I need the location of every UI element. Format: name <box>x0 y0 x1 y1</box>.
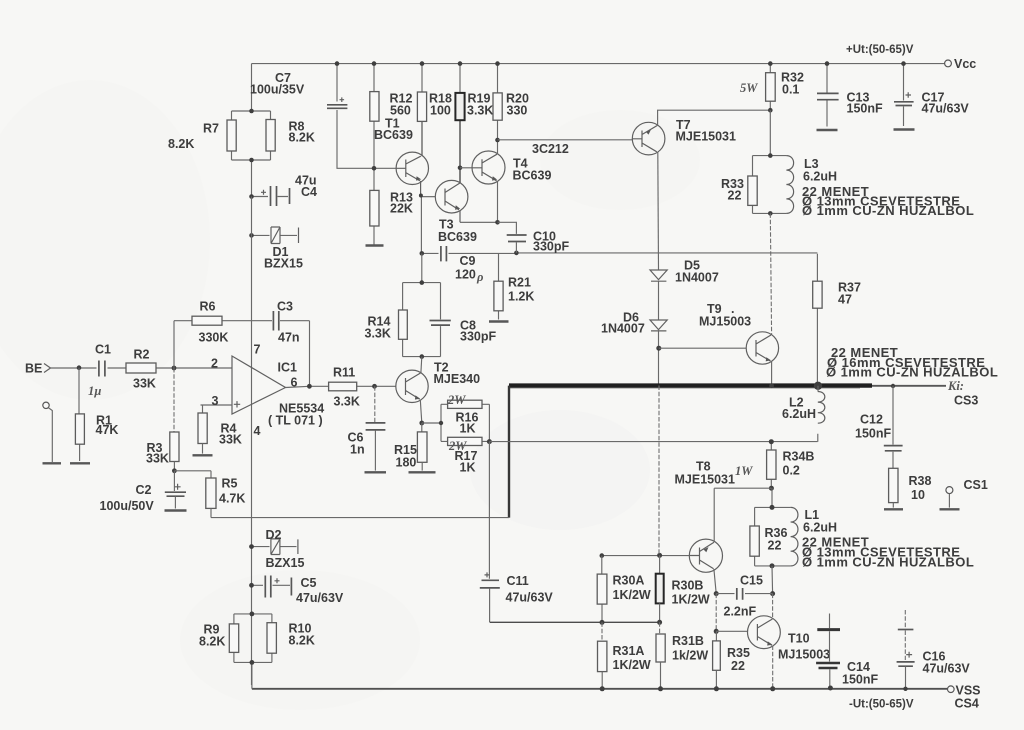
svg-text:CS4: CS4 <box>955 697 979 711</box>
svg-text:8.2K: 8.2K <box>289 131 315 145</box>
resistor R21 <box>498 253 500 319</box>
svg-text:47u/63V: 47u/63V <box>922 102 970 116</box>
node R12 top <box>372 61 377 66</box>
wire T2 collector <box>420 357 423 373</box>
svg-text:Ki:: Ki: <box>947 379 964 393</box>
node R19 top <box>458 61 463 66</box>
node R30B top <box>657 553 662 558</box>
wire T10 emitter <box>772 646 774 689</box>
op-amp IC1 NE5534 <box>201 342 325 438</box>
svg-text:33K: 33K <box>219 433 242 447</box>
svg-text:330pF: 330pF <box>533 240 569 254</box>
svg-text:C3: C3 <box>277 300 293 314</box>
capacitor C8 <box>430 321 451 326</box>
svg-text:CS3: CS3 <box>954 394 978 408</box>
wire T10 base <box>716 630 747 632</box>
node C9 left <box>420 251 425 256</box>
resistor R3 <box>173 368 175 432</box>
svg-text:150nF: 150nF <box>842 673 878 687</box>
wire base line to T7 <box>498 139 633 141</box>
capacitor C16 <box>904 610 906 629</box>
terminal input ground <box>43 402 49 408</box>
node T1 base <box>372 166 377 171</box>
svg-text:47u/63V: 47u/63V <box>923 662 971 676</box>
diode D5 1N4007 <box>650 270 667 281</box>
svg-text:C12: C12 <box>860 413 883 427</box>
svg-text:R5: R5 <box>222 477 238 491</box>
svg-text:3C212: 3C212 <box>532 142 569 156</box>
svg-text:100u/50V: 100u/50V <box>100 499 155 513</box>
node R16R17 right <box>487 439 492 444</box>
svg-text:47n: 47n <box>278 331 300 345</box>
wire R30 T8 base line <box>602 555 690 557</box>
node C13 top <box>825 61 830 66</box>
svg-text:330pF: 330pF <box>460 330 496 344</box>
wire D5 to D6 <box>658 281 660 320</box>
wire left spine middle <box>251 197 253 322</box>
node input R1 <box>77 365 82 370</box>
inductor L1 with resistor R36 <box>771 488 773 507</box>
transistor T9 MJ15003 <box>699 302 779 364</box>
svg-text:MJE15031: MJE15031 <box>675 473 736 487</box>
capacitor C17 <box>903 64 905 126</box>
node L3 bottom <box>768 211 773 216</box>
node L3 top <box>768 153 773 158</box>
svg-text:C1: C1 <box>95 343 111 357</box>
node T1 emitter joint <box>419 194 423 198</box>
terminal CS1 <box>946 487 953 494</box>
svg-text:BC639: BC639 <box>513 169 552 183</box>
node C4 <box>249 194 254 199</box>
svg-text:120: 120 <box>455 268 476 282</box>
svg-text:47K: 47K <box>96 423 119 437</box>
node R9R10 top <box>250 612 255 617</box>
node R30A top <box>600 553 605 558</box>
resistor R10 <box>267 623 276 654</box>
svg-text:MJ15003: MJ15003 <box>778 648 830 662</box>
resistor R20 <box>497 64 499 140</box>
node C5 <box>249 583 254 588</box>
node D2 <box>249 544 254 549</box>
ground below R38 <box>884 508 903 510</box>
svg-text:33K: 33K <box>133 377 156 391</box>
capacitor C15 <box>716 593 772 595</box>
resistor R31B <box>659 622 661 634</box>
node rail T9 <box>769 383 774 388</box>
resistor R31A <box>601 622 603 641</box>
node T10 base <box>714 629 719 634</box>
svg-text:7: 7 <box>254 342 261 356</box>
svg-text:4.7K: 4.7K <box>219 492 245 506</box>
transistor T10 MJ15003 <box>748 616 831 662</box>
node T2 emitter <box>419 421 424 426</box>
capacitor C2 <box>173 471 175 491</box>
svg-text:C15: C15 <box>740 574 763 588</box>
node R3 bottom <box>172 468 177 473</box>
wire T7 collector to R32 <box>658 110 771 125</box>
wire R3 to R5 <box>174 471 211 478</box>
svg-text:C2: C2 <box>136 483 152 497</box>
capacitor C4 <box>252 196 289 198</box>
resistor R4 <box>202 405 204 413</box>
transistor T8 MJE15031 <box>675 460 736 573</box>
svg-text:R2: R2 <box>134 348 150 362</box>
svg-text:R11: R11 <box>333 366 355 380</box>
svg-text:ρ: ρ <box>476 270 484 284</box>
wire T4 emitter <box>497 181 499 222</box>
svg-text:330: 330 <box>507 104 528 118</box>
resistor R1 <box>78 368 81 461</box>
capacitor C6 <box>374 386 376 422</box>
svg-text:R6: R6 <box>200 300 216 314</box>
svg-text:MJE340: MJE340 <box>434 372 481 386</box>
resistor R5 <box>206 478 216 508</box>
wire y253 to R37 <box>516 252 817 254</box>
node R9R10 bottom <box>250 660 255 665</box>
inductor L2 <box>817 386 819 442</box>
wire mid rail <box>490 621 660 623</box>
wire T9 emitter <box>771 361 773 386</box>
transistor T3 BC639 <box>435 180 497 244</box>
node T4 base <box>458 166 463 171</box>
svg-text:-Ut:(50-65)V: -Ut:(50-65)V <box>849 699 914 711</box>
node R34B bottom <box>769 486 774 491</box>
svg-text:BE: BE <box>25 362 42 376</box>
svg-text:R31B: R31B <box>672 634 704 648</box>
diode D2 BZX15 <box>252 546 297 548</box>
node R18 top <box>420 61 425 66</box>
node pin2 <box>172 366 177 371</box>
node output feedback <box>307 384 312 389</box>
wire top +Vcc rail <box>252 63 945 65</box>
resistor R11 <box>329 382 357 391</box>
wire T9 base <box>659 347 746 349</box>
svg-text:BC639: BC639 <box>438 230 477 244</box>
svg-text:MJ15003: MJ15003 <box>699 315 751 329</box>
svg-text:0.2: 0.2 <box>783 464 800 478</box>
svg-text:1n: 1n <box>350 443 365 457</box>
svg-text:MJE15031: MJE15031 <box>676 130 737 144</box>
diode D1 BZX15 <box>252 234 298 236</box>
svg-text:150nF: 150nF <box>855 427 891 441</box>
wire T4 base stub <box>460 167 472 169</box>
svg-text:150nF: 150nF <box>847 102 883 116</box>
node R20 bottom <box>495 138 500 143</box>
wire L3 to T9 collector <box>770 213 771 334</box>
svg-text:T10: T10 <box>788 632 810 646</box>
svg-text:47u/63V: 47u/63V <box>296 591 344 605</box>
svg-text:R30A: R30A <box>613 574 645 588</box>
svg-text:R35: R35 <box>727 646 750 660</box>
inductor L3 with resistor R33 <box>721 156 794 214</box>
svg-text:T8: T8 <box>696 460 711 474</box>
svg-text:1N4007: 1N4007 <box>675 271 719 285</box>
svg-text:3: 3 <box>212 394 219 408</box>
wire R6C3 feedback loop <box>174 321 310 387</box>
transistor T2 MJE340 <box>396 361 480 403</box>
svg-text:BZX15: BZX15 <box>266 556 305 570</box>
capacitor C9 <box>422 252 517 254</box>
transistor T4 BC639 <box>472 151 551 184</box>
svg-text:8.2K: 8.2K <box>168 137 194 151</box>
svg-text:47: 47 <box>838 293 852 307</box>
svg-text:C5: C5 <box>301 576 317 590</box>
resistor R37 <box>816 254 818 386</box>
svg-text:1K: 1K <box>460 422 476 436</box>
resistor R16 R17 pair <box>422 404 490 441</box>
resistor R16 <box>448 400 482 408</box>
svg-text:R34B: R34B <box>783 450 815 464</box>
wire left spine x=251.5 top <box>251 64 253 111</box>
resistor R13 <box>373 168 375 244</box>
node R32 top <box>768 61 773 66</box>
svg-text:100u/35V: 100u/35V <box>250 83 305 97</box>
wire T8 emitter node down to T10 base <box>715 594 717 632</box>
wire R32 to L3 <box>769 110 771 155</box>
svg-text:180: 180 <box>396 456 417 470</box>
node Vcc terminal <box>945 60 952 67</box>
svg-text:3.3K: 3.3K <box>334 395 360 409</box>
svg-text:Ø 1mm CU-ZN HUZALBOL: Ø 1mm CU-ZN HUZALBOL <box>802 203 974 218</box>
resistor R6 <box>192 316 222 325</box>
node mid rail R30B <box>657 620 662 625</box>
svg-text:8.2K: 8.2K <box>289 634 315 648</box>
svg-text:1K/2W: 1K/2W <box>613 588 651 602</box>
resistor R34B <box>770 442 772 489</box>
capacitor C11 <box>480 580 500 588</box>
svg-text:1K/2W: 1K/2W <box>613 658 651 672</box>
wire L1 bottom to C15 node <box>771 566 774 594</box>
capacitor C3 <box>273 311 278 331</box>
wire T4 collector <box>497 140 499 154</box>
wire opamp output <box>286 386 397 387</box>
svg-text:2: 2 <box>211 356 218 370</box>
svg-text:10: 10 <box>911 488 925 502</box>
ground below R1 <box>70 462 90 464</box>
svg-text:22K: 22K <box>390 202 413 216</box>
svg-text:33K: 33K <box>146 452 169 466</box>
svg-text:( TL 071 ): ( TL 071 ) <box>268 414 323 428</box>
node T4 emitter <box>495 220 500 225</box>
node D1 <box>249 233 254 238</box>
capacitor C13 <box>826 64 828 127</box>
node rail L2 <box>814 382 822 390</box>
svg-text:560: 560 <box>390 104 411 118</box>
node mid rail R30A <box>600 620 605 625</box>
capacitor C1 <box>99 361 105 377</box>
node R34B top <box>769 439 774 444</box>
svg-text:R38: R38 <box>909 474 932 488</box>
node bracket bottom <box>420 354 425 359</box>
node C17 top <box>901 61 906 66</box>
svg-text:R21: R21 <box>508 276 531 290</box>
diode D6 1N4007 <box>650 320 667 331</box>
wire x659 D6 to R30B <box>658 386 660 556</box>
capacitor C5 <box>252 584 291 586</box>
wire T2 emitter <box>420 400 422 423</box>
svg-text:R7: R7 <box>203 122 219 136</box>
node R20 top <box>495 61 500 66</box>
node T9 base <box>656 346 661 351</box>
transistor T1 BC639 <box>374 117 435 254</box>
svg-text:4: 4 <box>254 424 261 438</box>
svg-text:2W: 2W <box>447 393 466 407</box>
capacitor C10 <box>498 222 517 253</box>
svg-text:22: 22 <box>728 189 742 203</box>
node rail C12 <box>891 384 895 388</box>
wire thick output rail <box>509 383 872 387</box>
svg-text:3.3K: 3.3K <box>365 327 391 341</box>
resistor R2 <box>126 363 156 373</box>
svg-text:R31A: R31A <box>613 644 645 658</box>
svg-text:Ø 1mm CU-ZN HUZALBOL: Ø 1mm CU-ZN HUZALBOL <box>826 365 998 380</box>
wire input line <box>51 367 233 369</box>
wire bottom rail <box>252 688 947 690</box>
wire R34B to T8 collector <box>714 488 771 541</box>
terminal VSS <box>948 686 955 693</box>
node C15 left <box>714 591 719 596</box>
resistor R38 <box>889 468 898 502</box>
resistor R18 <box>421 64 423 156</box>
node R11 right <box>372 384 377 389</box>
node bottom rail joints <box>600 686 605 691</box>
node C7 top <box>335 61 340 66</box>
node C15 right <box>770 591 775 596</box>
resistor R35 <box>715 631 717 641</box>
node R16R17 left <box>439 421 443 425</box>
svg-text:1W: 1W <box>735 464 753 478</box>
capacitor C12 <box>892 386 894 468</box>
svg-text:+Ut:(50-65)V: +Ut:(50-65)V <box>846 44 914 56</box>
svg-text:22: 22 <box>768 539 782 553</box>
svg-text:Vcc: Vcc <box>954 57 976 71</box>
svg-text:1.2K: 1.2K <box>508 290 534 304</box>
svg-text:1k/2W: 1k/2W <box>672 649 708 663</box>
svg-text:Ø 1mm CU-ZN HUZALBOL: Ø 1mm CU-ZN HUZALBOL <box>802 555 974 570</box>
svg-text:100: 100 <box>430 104 451 118</box>
resistor R14 <box>399 310 408 339</box>
svg-text:1K: 1K <box>460 461 476 475</box>
capacitor C7 <box>337 64 396 169</box>
wire D6 to T9 base node <box>658 331 660 386</box>
node L1 top <box>770 505 775 510</box>
node R7R8 bottom <box>249 158 254 163</box>
svg-text:6.2uH: 6.2uH <box>782 407 816 421</box>
resistor R7 <box>227 120 236 151</box>
svg-text:BZX15: BZX15 <box>264 257 303 271</box>
resistor R17 <box>448 437 482 445</box>
wire T7 emitter down <box>657 152 660 270</box>
svg-text:R30B: R30B <box>672 579 704 593</box>
node L1 bottom <box>770 563 775 568</box>
svg-text:VSS: VSS <box>956 684 981 698</box>
svg-text:5W: 5W <box>740 81 758 95</box>
resistor R30A <box>601 556 603 623</box>
resistor R8 <box>266 120 275 152</box>
svg-text:6.2uH: 6.2uH <box>803 170 837 184</box>
capacitor C14 <box>829 614 831 629</box>
svg-text:22: 22 <box>731 659 745 673</box>
ground below R21 <box>489 320 509 322</box>
svg-text:47u/63V: 47u/63V <box>506 591 554 605</box>
svg-text:3.3K: 3.3K <box>467 104 493 118</box>
svg-text:IC1: IC1 <box>278 361 298 375</box>
transistor T7 MJE15031 <box>632 118 736 155</box>
resistor R9 <box>229 624 238 653</box>
resistor R7 R8 bracket <box>232 111 271 197</box>
resistor R32 <box>769 64 771 111</box>
wire T10 collector <box>772 594 774 619</box>
resistor R9 R10 bracket <box>234 614 272 689</box>
svg-text:BC639: BC639 <box>374 128 413 142</box>
svg-text:C9: C9 <box>460 254 476 268</box>
svg-text:0.1: 0.1 <box>782 83 799 97</box>
resistor R12 <box>373 64 375 169</box>
resistor R14 capacitor C8 bracket <box>421 253 423 282</box>
wire drive line y441 <box>489 441 817 443</box>
svg-text:C11: C11 <box>507 574 529 588</box>
svg-text:D2: D2 <box>266 528 282 542</box>
svg-text:C4: C4 <box>301 185 317 199</box>
ground below R13 <box>366 244 384 246</box>
svg-text:6.2uH: 6.2uH <box>803 521 837 535</box>
svg-text:1K/2W: 1K/2W <box>672 593 710 607</box>
node R7R8 top <box>249 109 254 114</box>
node bracket top <box>420 280 425 285</box>
wire T8 emitter <box>714 569 716 594</box>
svg-text:2.2nF: 2.2nF <box>724 605 757 619</box>
resistor R15 <box>421 423 423 432</box>
resistor R30B <box>659 555 661 573</box>
svg-text:8.2K: 8.2K <box>199 635 225 649</box>
wire x490 down to C11 <box>488 442 490 579</box>
svg-text:330K: 330K <box>199 331 229 345</box>
wire bus corner to R5 <box>211 517 509 519</box>
svg-text:1N4007: 1N4007 <box>601 322 645 336</box>
node R32 bottom <box>768 108 773 113</box>
node C10 bottom joint <box>514 251 519 256</box>
resistor R19 <box>459 64 461 93</box>
svg-text:CS1: CS1 <box>964 478 988 492</box>
wire thick vertical bus <box>508 386 510 518</box>
svg-text:1µ: 1µ <box>88 384 101 398</box>
